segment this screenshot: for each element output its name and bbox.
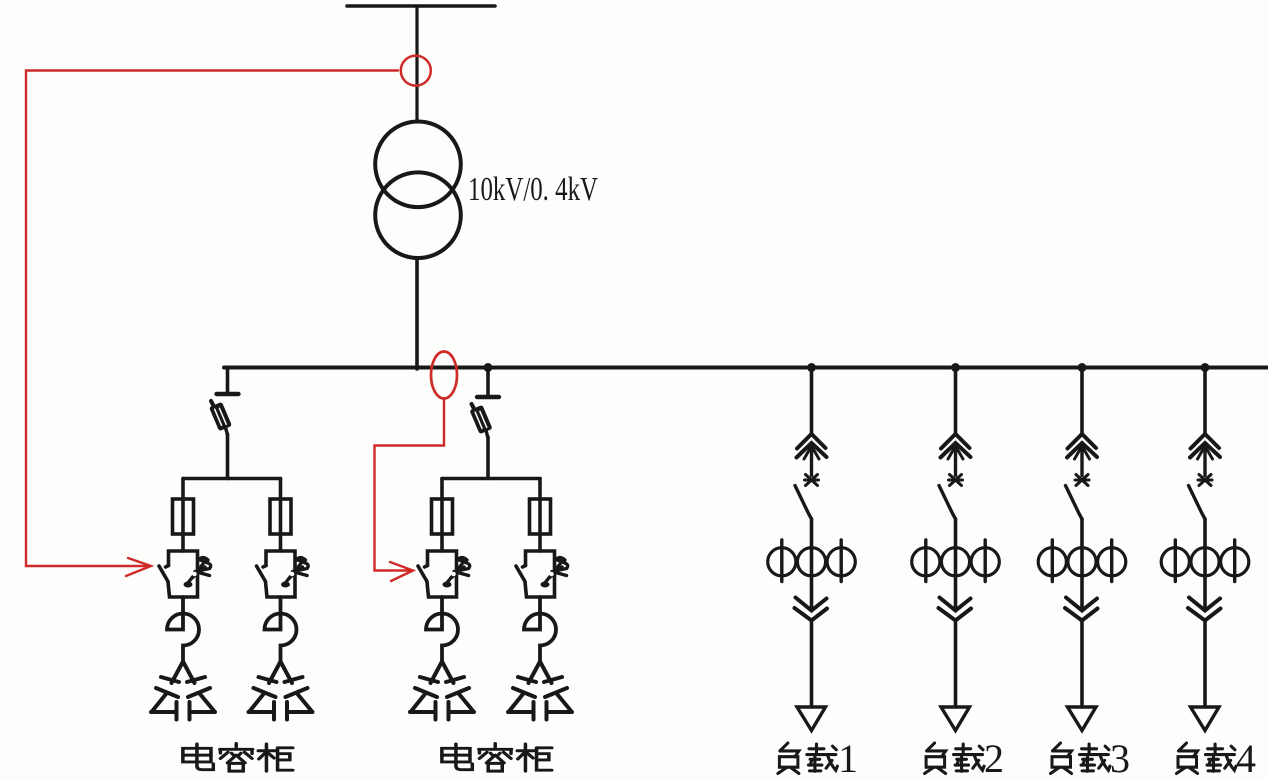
CT group 1	[768, 540, 856, 582]
split bar 1	[183, 477, 281, 481]
wire branch 1R	[279, 479, 283, 552]
wire branch 2L	[440, 479, 444, 552]
label 负载3	[1051, 736, 1131, 779]
breaker QF1	[795, 475, 819, 520]
red sensing wire 1	[26, 71, 398, 567]
wire to split	[486, 437, 490, 479]
svg-text:2: 2	[984, 736, 1004, 779]
fuse-switch QS1	[209, 394, 239, 435]
drawout contact 1 lower	[795, 598, 828, 621]
CT group 3	[1038, 540, 1126, 582]
junction dot load 2	[951, 363, 960, 372]
wire load 1 upper	[810, 368, 814, 435]
CT group 4	[1161, 540, 1249, 582]
CT ellipse (red) on busbar	[431, 352, 457, 399]
capacitor bank C2a	[410, 662, 474, 720]
label 负载1	[778, 736, 858, 779]
junction dot load 1	[807, 363, 816, 372]
breaker QF2	[939, 475, 963, 520]
contactor KM1a	[159, 551, 211, 597]
main LV busbar	[224, 366, 1268, 370]
fuse FU1b	[270, 499, 291, 534]
reactor L1a	[167, 597, 199, 662]
red arrowhead 1	[126, 558, 151, 576]
svg-text:10kV/0. 4kV: 10kV/0. 4kV	[468, 171, 598, 208]
drawout contact 4	[1190, 434, 1220, 476]
wire load 4 mid	[1203, 519, 1207, 610]
red arrowhead 2	[390, 562, 413, 581]
wire branch 1L	[181, 479, 185, 552]
top incoming busbar	[347, 4, 495, 8]
label cabinet 2: 电容柜	[442, 743, 552, 771]
red sensing wire 2	[375, 399, 445, 571]
wire load 3 lower	[1080, 621, 1084, 708]
reactor L1b	[265, 597, 297, 662]
label 负载2	[925, 736, 1004, 779]
load arrow 3	[1068, 707, 1097, 731]
svg-text:1: 1	[838, 736, 858, 779]
fuse-switch QS2	[469, 397, 499, 438]
wire load 3 upper	[1080, 368, 1084, 435]
reactor L2b	[524, 597, 556, 662]
CT ring (red) on HV riser	[401, 56, 431, 86]
wire load 3 mid	[1080, 519, 1084, 610]
fuse FU2b	[530, 499, 551, 534]
svg-text:4: 4	[1236, 736, 1256, 779]
drawout contact 3 lower	[1065, 598, 1098, 621]
reactor L2a	[426, 597, 458, 662]
label cabinet 1: 电容柜	[183, 743, 293, 771]
wire load 2 upper	[954, 368, 958, 435]
breaker QF3	[1066, 475, 1090, 520]
contactor KM2a	[418, 551, 470, 597]
contactor KM1b	[257, 551, 309, 597]
transformer T1 10kV/0.4kV	[375, 122, 461, 208]
junction dot load 4	[1201, 363, 1210, 372]
capacitor bank C2b	[508, 662, 572, 720]
wire load 2 mid	[954, 519, 958, 610]
wire load 2 lower	[954, 621, 958, 708]
capacitor bank C1b	[249, 662, 313, 720]
junction dot tap 2	[484, 363, 493, 372]
drawout contact 4 lower	[1188, 598, 1221, 621]
tap stub 1	[226, 368, 230, 393]
fuse FU2a	[432, 499, 453, 534]
CT group 2	[912, 540, 1000, 582]
wire load 1 lower	[810, 621, 814, 708]
capacitor bank C1a	[151, 662, 215, 720]
drawout contact 2 lower	[939, 598, 972, 621]
contactor KM2b	[516, 551, 568, 597]
drawout contact 3	[1067, 434, 1097, 476]
drawout contact 1	[797, 434, 827, 476]
wire branch 2R	[538, 479, 542, 552]
junction dot load 3	[1078, 363, 1087, 372]
tap stub 2	[486, 368, 490, 396]
load arrow 4	[1191, 707, 1220, 731]
breaker QF4	[1189, 475, 1213, 520]
wire load 1 mid	[810, 519, 814, 610]
wire: HV riser	[415, 6, 418, 122]
wire load 4 upper	[1203, 368, 1207, 435]
svg-text:3: 3	[1110, 736, 1130, 779]
wire: LV riser	[415, 258, 419, 369]
fuse FU1a	[173, 499, 194, 534]
load arrow 2	[941, 707, 970, 731]
split bar 2	[442, 477, 540, 481]
wire to split	[226, 434, 230, 479]
drawout contact 2	[941, 434, 971, 476]
wire load 4 lower	[1203, 621, 1207, 708]
label 负载4	[1177, 736, 1257, 779]
load arrow 1	[797, 707, 826, 731]
